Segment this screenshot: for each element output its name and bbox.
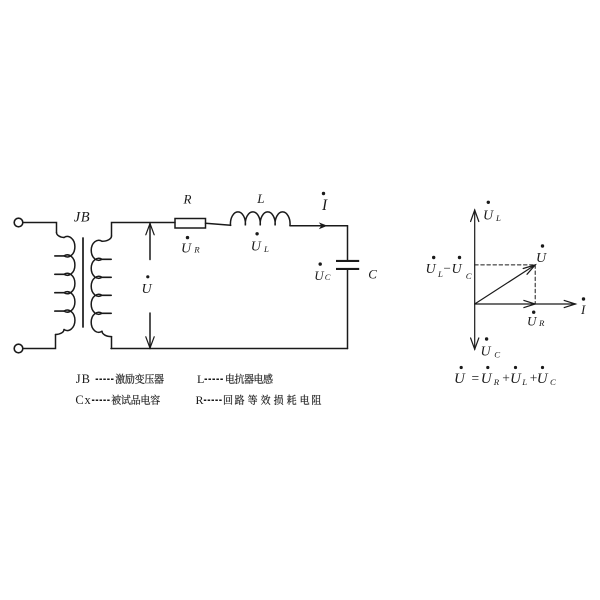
- legend text 被试品电容: [112, 395, 160, 405]
- transformer JB primary winding humps: [64, 236, 75, 330]
- svg-text:L: L: [197, 372, 204, 386]
- svg-text:U: U: [527, 314, 538, 329]
- svg-text:R: R: [196, 393, 204, 407]
- svg-text:I: I: [580, 302, 586, 317]
- legend text 回路等效损耗电阻: [224, 395, 321, 405]
- phasor vertical axis up arrowhead: [471, 210, 479, 222]
- inductor L winding: [230, 212, 290, 226]
- svg-text:U: U: [537, 371, 549, 387]
- label U dot (source voltage): [146, 275, 149, 278]
- secondary winding tick 2: [102, 276, 112, 278]
- voltage arrow U upper segment: [149, 224, 151, 260]
- phasor vertical axis down arrowhead: [471, 338, 479, 349]
- wire T1 to primary top: [23, 223, 57, 233]
- svg-text:U: U: [454, 371, 466, 387]
- svg-text:U: U: [510, 371, 522, 387]
- svg-text:U: U: [181, 241, 192, 256]
- wire right corner down to capacitor: [347, 226, 349, 260]
- voltage arrow U lower segment: [149, 313, 151, 348]
- phasor label U_R dot: [532, 311, 535, 314]
- svg-text:C: C: [494, 350, 500, 360]
- phasor label U_L minus U_C dot2: [458, 256, 461, 259]
- primary winding top hook: [56, 233, 64, 238]
- legend Cx dashes: [92, 399, 110, 401]
- svg-text:R: R: [193, 245, 200, 255]
- phasor U vector: [475, 265, 536, 304]
- secondary winding tick 1: [102, 258, 112, 260]
- svg-text:JB: JB: [76, 372, 91, 386]
- svg-text:U: U: [481, 371, 493, 387]
- phasor label U_L minus U_C dot1: [432, 256, 435, 259]
- svg-text:C: C: [325, 272, 331, 282]
- label U_C dot: [319, 262, 322, 265]
- svg-text:L: L: [263, 244, 269, 254]
- svg-text:R: R: [538, 318, 545, 328]
- svg-text:Cx: Cx: [75, 393, 91, 407]
- primary winding tick 2: [55, 273, 65, 275]
- equation U_R dot: [486, 366, 489, 369]
- transformer JB secondary winding humps: [91, 240, 102, 332]
- phasor horizontal axis arrowhead: [564, 300, 575, 307]
- legend text 激励变压器: [116, 374, 164, 384]
- wire resistor to inductor: [206, 223, 231, 225]
- svg-text:U: U: [481, 345, 492, 360]
- svg-text:U: U: [142, 282, 153, 297]
- svg-text:L: L: [521, 377, 527, 387]
- svg-text:L: L: [495, 213, 501, 223]
- transformer JB core: [82, 238, 84, 327]
- current arrow head on top rail: [319, 222, 328, 229]
- primary winding tick 1: [55, 255, 65, 257]
- svg-text:U: U: [483, 209, 494, 224]
- phasor U_R arrowhead: [524, 300, 535, 307]
- svg-text:U: U: [452, 262, 463, 277]
- primary winding tick 3: [55, 292, 65, 294]
- svg-text:=: =: [472, 371, 480, 386]
- wire capacitor to bottom rail: [347, 270, 349, 349]
- label U_R dot: [186, 236, 189, 239]
- wire secondary bottom to bottom rail: [111, 337, 113, 349]
- primary winding tick 4: [55, 310, 65, 312]
- secondary winding tick 4: [102, 312, 112, 314]
- svg-text:R: R: [183, 192, 192, 207]
- resistor R body: [175, 219, 206, 229]
- phasor label U dot: [541, 244, 544, 247]
- voltage arrow U down arrowhead: [146, 337, 154, 348]
- phasor label U_L dot: [487, 201, 490, 204]
- primary winding bottom hook: [56, 330, 65, 335]
- equation U_C dot: [541, 366, 544, 369]
- secondary winding tick 3: [102, 294, 112, 296]
- equation U_L dot: [514, 366, 517, 369]
- svg-text:U: U: [536, 251, 547, 266]
- phasor diagram axes: [471, 210, 576, 349]
- svg-text:R: R: [493, 377, 500, 387]
- capacitor C bottom plate: [336, 268, 359, 270]
- secondary winding top hook: [102, 236, 112, 241]
- svg-text:JB: JB: [74, 209, 90, 225]
- dashed line U projection: [534, 265, 536, 304]
- bottom rail wire: [111, 348, 348, 350]
- label U_L dot: [255, 232, 258, 235]
- svg-text:L: L: [437, 269, 443, 279]
- phasor label U_C dot: [485, 337, 488, 340]
- legend text 电抗器电感: [226, 374, 272, 384]
- voltage arrow U up arrowhead: [146, 224, 154, 235]
- svg-text:+: +: [502, 371, 510, 386]
- svg-text:I: I: [321, 197, 328, 214]
- legend JB dashes: [96, 378, 115, 380]
- svg-text:U: U: [251, 240, 262, 255]
- wire secondary top to top rail: [112, 223, 176, 237]
- legend L dashes: [205, 378, 224, 380]
- svg-text:U: U: [426, 262, 437, 277]
- svg-text:L: L: [256, 191, 264, 206]
- svg-text:C: C: [368, 266, 377, 281]
- terminal T1 (top-left input): [14, 218, 23, 227]
- wire primary bottom to T2: [23, 335, 56, 349]
- phasor label I dot: [582, 297, 585, 300]
- svg-text:−: −: [444, 261, 451, 276]
- legend R dashes: [204, 399, 223, 401]
- svg-text:U: U: [314, 268, 325, 283]
- terminal T2 (bottom-left input): [14, 344, 23, 353]
- secondary winding bottom hook: [102, 331, 112, 336]
- phasor horizontal axis I: [475, 303, 576, 305]
- wire inductor to right corner: [290, 225, 348, 227]
- dashed line U_L minus U_C level: [475, 264, 536, 266]
- phasor U vector arrowhead: [523, 265, 535, 274]
- capacitor C top plate: [336, 260, 359, 262]
- label I dot (circuit current): [322, 192, 325, 195]
- phasor vertical axis: [474, 210, 476, 349]
- equation U dot: [460, 366, 463, 369]
- svg-text:C: C: [550, 377, 556, 387]
- svg-text:C: C: [466, 271, 472, 281]
